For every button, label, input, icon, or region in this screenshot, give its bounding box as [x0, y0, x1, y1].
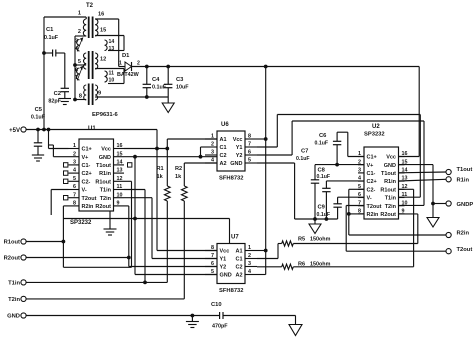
- svg-text:A2: A2: [220, 161, 227, 167]
- svg-text:C2+: C2+: [82, 171, 92, 177]
- svg-text:10: 10: [109, 78, 115, 84]
- svg-text:C2: C2: [54, 91, 61, 97]
- svg-text:SFH8732: SFH8732: [219, 288, 244, 294]
- svg-text:R2out: R2out: [95, 204, 111, 210]
- svg-text:1: 1: [119, 61, 122, 67]
- svg-text:R1out: R1out: [95, 179, 111, 185]
- svg-text:BAT42W: BAT42W: [117, 72, 140, 78]
- svg-text:SP3232: SP3232: [70, 220, 92, 226]
- svg-text:0.1uF: 0.1uF: [317, 212, 331, 218]
- svg-text:9: 9: [98, 91, 101, 97]
- svg-text:T2out: T2out: [82, 196, 97, 202]
- svg-text:C8: C8: [318, 168, 326, 174]
- svg-text:R1out: R1out: [4, 240, 20, 246]
- svg-text:470pF: 470pF: [212, 324, 228, 330]
- svg-text:0.1uF: 0.1uF: [296, 156, 310, 162]
- svg-text:U2: U2: [372, 124, 380, 130]
- svg-text:T1in: T1in: [100, 188, 112, 194]
- svg-text:C1: C1: [235, 257, 242, 263]
- svg-text:Y2: Y2: [236, 153, 243, 159]
- svg-text:0.1uF: 0.1uF: [317, 174, 331, 180]
- svg-text:T2out: T2out: [367, 204, 382, 210]
- svg-text:82pF: 82pF: [48, 99, 61, 105]
- svg-text:V-: V-: [82, 188, 87, 194]
- svg-text:5: 5: [78, 59, 81, 65]
- svg-text:+5V: +5V: [9, 128, 20, 134]
- svg-text:C1: C1: [220, 145, 227, 151]
- svg-text:C1: C1: [46, 27, 54, 33]
- svg-text:2: 2: [78, 29, 81, 35]
- svg-text:16: 16: [98, 12, 104, 18]
- svg-text:GND: GND: [99, 155, 111, 161]
- svg-text:R2out: R2out: [380, 212, 396, 218]
- svg-text:GND: GND: [384, 163, 396, 169]
- svg-text:150ohm: 150ohm: [310, 262, 331, 268]
- svg-text:U7: U7: [231, 235, 239, 241]
- svg-text:C2+: C2+: [367, 179, 377, 185]
- svg-text:C6: C6: [319, 133, 327, 139]
- svg-text:A1: A1: [220, 137, 227, 143]
- svg-text:R2in: R2in: [457, 231, 470, 237]
- svg-text:0.1uF: 0.1uF: [31, 115, 46, 121]
- svg-text:Y2: Y2: [220, 265, 227, 271]
- svg-text:R2out: R2out: [4, 256, 20, 262]
- svg-text:C3: C3: [176, 77, 184, 83]
- svg-text:Y1: Y1: [236, 145, 243, 151]
- svg-text:13: 13: [109, 46, 115, 52]
- svg-text:GND: GND: [7, 314, 20, 320]
- svg-text:R5: R5: [298, 237, 305, 243]
- svg-text:1k: 1k: [175, 174, 182, 180]
- svg-text:T2in: T2in: [8, 297, 20, 303]
- svg-text:R2in: R2in: [82, 204, 95, 210]
- svg-text:GND: GND: [220, 273, 232, 279]
- svg-text:15: 15: [100, 28, 106, 34]
- svg-text:C9: C9: [318, 205, 326, 211]
- svg-text:14: 14: [109, 39, 115, 45]
- svg-text:C1+: C1+: [82, 147, 92, 153]
- svg-text:T2out: T2out: [457, 247, 473, 253]
- svg-text:V+: V+: [82, 155, 89, 161]
- svg-text:A1: A1: [235, 249, 242, 255]
- svg-text:C1-: C1-: [367, 171, 376, 177]
- svg-text:10uF: 10uF: [176, 85, 189, 91]
- svg-text:GNDP: GNDP: [457, 202, 474, 208]
- svg-text:R6: R6: [298, 262, 305, 268]
- svg-text:EP9631-6: EP9631-6: [92, 112, 119, 118]
- svg-text:Vcc: Vcc: [101, 147, 111, 153]
- svg-text:C1-: C1-: [82, 163, 91, 169]
- svg-text:Y1: Y1: [220, 257, 227, 263]
- svg-text:R2: R2: [175, 166, 182, 172]
- svg-text:SP3232: SP3232: [364, 132, 385, 138]
- svg-text:C10: C10: [211, 302, 222, 308]
- svg-text:R1out: R1out: [380, 187, 396, 193]
- svg-text:12: 12: [100, 57, 106, 63]
- svg-text:A2: A2: [235, 273, 242, 279]
- svg-text:0.1uF: 0.1uF: [44, 35, 59, 41]
- svg-text:R1in: R1in: [384, 179, 397, 185]
- svg-text:R1in: R1in: [457, 178, 470, 184]
- svg-text:T1in: T1in: [385, 196, 397, 202]
- svg-text:1: 1: [78, 11, 81, 17]
- svg-text:T1out: T1out: [457, 167, 473, 173]
- svg-text:8: 8: [79, 94, 82, 100]
- svg-text:C2-: C2-: [367, 187, 376, 193]
- svg-text:C1+: C1+: [367, 155, 377, 161]
- svg-text:Vcc: Vcc: [220, 249, 230, 255]
- svg-text:C2: C2: [220, 153, 227, 159]
- svg-text:R1in: R1in: [99, 171, 112, 177]
- svg-text:150ohm: 150ohm: [310, 237, 331, 243]
- svg-text:V+: V+: [367, 163, 374, 169]
- svg-text:C2: C2: [235, 265, 242, 271]
- svg-text:C5: C5: [35, 107, 43, 113]
- svg-text:0.1uF: 0.1uF: [315, 141, 329, 147]
- svg-text:2: 2: [137, 61, 140, 67]
- svg-text:U6: U6: [221, 122, 229, 128]
- svg-text:C7: C7: [301, 149, 308, 155]
- svg-text:C4: C4: [152, 77, 160, 83]
- svg-text:GND: GND: [230, 161, 242, 167]
- svg-text:C2-: C2-: [82, 179, 91, 185]
- svg-text:T2: T2: [86, 3, 94, 9]
- svg-text:SFH8732: SFH8732: [219, 176, 244, 182]
- svg-text:T2in: T2in: [100, 196, 112, 202]
- svg-text:T1out: T1out: [96, 163, 111, 169]
- svg-text:V-: V-: [367, 196, 372, 202]
- svg-text:Vcc: Vcc: [233, 137, 243, 143]
- svg-text:T2in: T2in: [385, 204, 397, 210]
- svg-text:Vcc: Vcc: [386, 155, 396, 161]
- svg-text:T1in: T1in: [8, 281, 20, 287]
- svg-text:T1out: T1out: [381, 171, 396, 177]
- svg-text:11: 11: [109, 71, 115, 77]
- svg-text:D1: D1: [122, 53, 130, 59]
- svg-text:R2in: R2in: [367, 212, 380, 218]
